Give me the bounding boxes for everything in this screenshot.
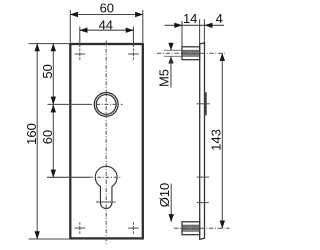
dimension 14 / 4 <box>165 19 225 47</box>
dimension 143 <box>221 53 223 228</box>
Ø10 dimension <box>170 184 172 222</box>
svg-text:143: 143 <box>208 129 223 151</box>
svg-text:60: 60 <box>100 0 114 15</box>
side view plate <box>200 43 205 239</box>
euro tail cap centerline tick <box>96 201 116 203</box>
boss 1 (M5 stud) <box>182 47 200 60</box>
svg-text:60: 60 <box>40 130 55 144</box>
svg-text:44: 44 <box>99 17 113 32</box>
boss 2 centerline <box>174 227 230 229</box>
screw hole cross bottom-left <box>75 222 86 234</box>
euro hole horizontal centerline <box>89 176 122 178</box>
svg-text:4: 4 <box>216 11 223 26</box>
screw hole cross top-left <box>75 49 86 61</box>
screw hole cross bottom-right <box>128 222 139 234</box>
dimension 60 top <box>70 10 143 43</box>
svg-text:Ø10: Ø10 <box>157 183 172 208</box>
dimension 60 vertical <box>47 104 90 177</box>
front view plate outline <box>70 44 143 238</box>
handle hole horizontal centerline <box>88 103 123 105</box>
euro cylinder hole <box>95 166 117 208</box>
boss 1 centerline <box>157 52 225 54</box>
vertical centerline through holes <box>105 41 107 244</box>
svg-text:14: 14 <box>183 11 197 26</box>
side view hole slot bar <box>204 92 207 115</box>
dimension 50 <box>48 44 90 105</box>
handle hole outer circle <box>94 93 118 117</box>
side view centerline ticks <box>197 103 210 105</box>
svg-text:M5: M5 <box>157 69 172 87</box>
handle hole inner circle <box>96 95 116 115</box>
svg-text:50: 50 <box>40 64 55 78</box>
dimension 44 <box>80 27 134 48</box>
screw hole cross top-right <box>128 49 139 61</box>
M5 thread dimension <box>170 43 172 51</box>
boss 2 (Ø10 stud) <box>182 222 200 235</box>
svg-text:160: 160 <box>24 123 39 145</box>
dimension 160 left <box>29 44 71 239</box>
